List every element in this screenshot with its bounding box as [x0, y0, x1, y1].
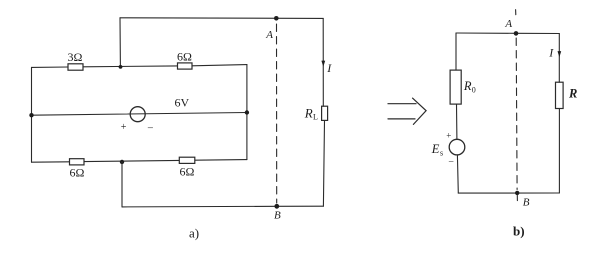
- svg-text:L: L: [313, 113, 318, 122]
- svg-text:+: +: [121, 122, 127, 133]
- resistor 6Ω bottom-left (box): [70, 159, 85, 165]
- caption b): [513, 224, 525, 239]
- wire: drop from top wire to top-row junction: [119, 18, 121, 67]
- node label B (circuit a): [274, 210, 281, 222]
- value label 6Ω bottom-left: [70, 166, 85, 180]
- wire: left vertical of network a: [31, 67, 33, 162]
- node B (circuit a): [274, 204, 279, 209]
- voltage source Es (circle): [449, 139, 465, 155]
- node label B (circuit b): [523, 196, 530, 208]
- wire: bottom resistor row: [32, 160, 247, 163]
- wire: right branch of circuit b (bottom segment): [558, 109, 560, 194]
- svg-text:B: B: [523, 196, 530, 208]
- wire: top wire of circuit b: [456, 32, 559, 35]
- node: middle row left junction: [29, 113, 33, 117]
- polarity label − of 6V source: [147, 123, 154, 134]
- wire: left branch of circuit b (below source): [456, 155, 459, 193]
- resistor 3Ω (box): [68, 64, 83, 70]
- node label A (circuit b): [504, 18, 512, 30]
- svg-text:I: I: [326, 61, 332, 75]
- current label I (circuit a): [326, 61, 332, 75]
- polarity label + of 6V source: [121, 122, 127, 133]
- wire: bottom wire of circuit b: [458, 192, 559, 194]
- node: middle row right junction: [245, 110, 249, 114]
- node A (circuit b): [514, 31, 519, 36]
- wire: top resistor row: [32, 65, 247, 68]
- node A (circuit a): [274, 16, 279, 21]
- svg-text:R: R: [463, 79, 472, 93]
- current arrow I (circuit a): [321, 61, 325, 67]
- polarity label − of Es: [448, 156, 454, 166]
- svg-text:6Ω: 6Ω: [70, 166, 85, 180]
- value label 6Ω top: [177, 50, 192, 64]
- wire: top wire of network a: [120, 17, 323, 20]
- svg-text:A: A: [504, 18, 512, 30]
- value label 6V: [175, 95, 190, 109]
- dashed node line A-B (circuit a): [276, 24, 278, 203]
- svg-text:6V: 6V: [175, 95, 190, 109]
- resistor RL (box): [322, 106, 328, 120]
- value label 3Ω: [68, 50, 83, 64]
- wire: bottom wire of circuit a: [122, 205, 323, 208]
- label Es: [431, 142, 443, 158]
- wire: left branch of circuit b (top segment): [455, 33, 457, 70]
- wire: middle row of network a: [32, 113, 247, 116]
- svg-text:6Ω: 6Ω: [177, 50, 192, 64]
- node: top-row junction: [119, 65, 123, 69]
- svg-text:a): a): [189, 226, 199, 241]
- svg-text:B: B: [274, 210, 281, 222]
- svg-text:+: +: [446, 131, 451, 141]
- svg-text:0: 0: [472, 85, 476, 94]
- svg-text:–: –: [147, 123, 154, 134]
- node: bottom-row junction: [120, 160, 124, 164]
- svg-text:A: A: [265, 29, 273, 41]
- resistor R0 (box): [450, 70, 461, 104]
- wire: right vertical of network a: [246, 65, 248, 160]
- resistor R (box): [556, 82, 564, 108]
- current label I (circuit b): [548, 46, 554, 60]
- resistor 6Ω top (box): [178, 63, 193, 69]
- label R (circuit b): [568, 87, 577, 101]
- node label A (circuit a): [265, 29, 273, 41]
- svg-text:6Ω: 6Ω: [180, 164, 195, 178]
- wire: load branch vertical (circuit a): [323, 18, 324, 206]
- value label 6Ω bottom-right: [180, 164, 195, 178]
- dashed node line A-B (circuit b): [515, 38, 518, 190]
- svg-text:3Ω: 3Ω: [68, 50, 83, 64]
- wire: drop from bottom-row junction: [121, 162, 123, 207]
- svg-text:E: E: [431, 142, 440, 156]
- equivalence arrow (double arrow between a and b): [388, 98, 426, 124]
- svg-text:s: s: [440, 149, 443, 158]
- svg-text:–: –: [448, 156, 454, 166]
- current arrow I (circuit b): [558, 51, 562, 57]
- wire: right branch of circuit b (top segment): [558, 34, 560, 83]
- label R0: [463, 79, 476, 95]
- caption a): [189, 226, 199, 241]
- node B (circuit b): [515, 191, 519, 195]
- voltage source 6V (circle): [130, 107, 145, 122]
- svg-text:b): b): [513, 224, 525, 239]
- wire: left branch of circuit b (R0 to source): [456, 104, 458, 139]
- label RL: [304, 105, 318, 121]
- resistor 6Ω bottom-right (box): [179, 157, 195, 163]
- dashed node line A-B (circuit b), tick below B: [516, 195, 518, 200]
- svg-text:I: I: [548, 46, 554, 60]
- svg-text:R: R: [568, 87, 577, 101]
- svg-text:R: R: [304, 105, 313, 120]
- polarity label + of Es: [446, 131, 451, 141]
- dashed node line A-B (circuit b), upper tick: [515, 10, 517, 15]
